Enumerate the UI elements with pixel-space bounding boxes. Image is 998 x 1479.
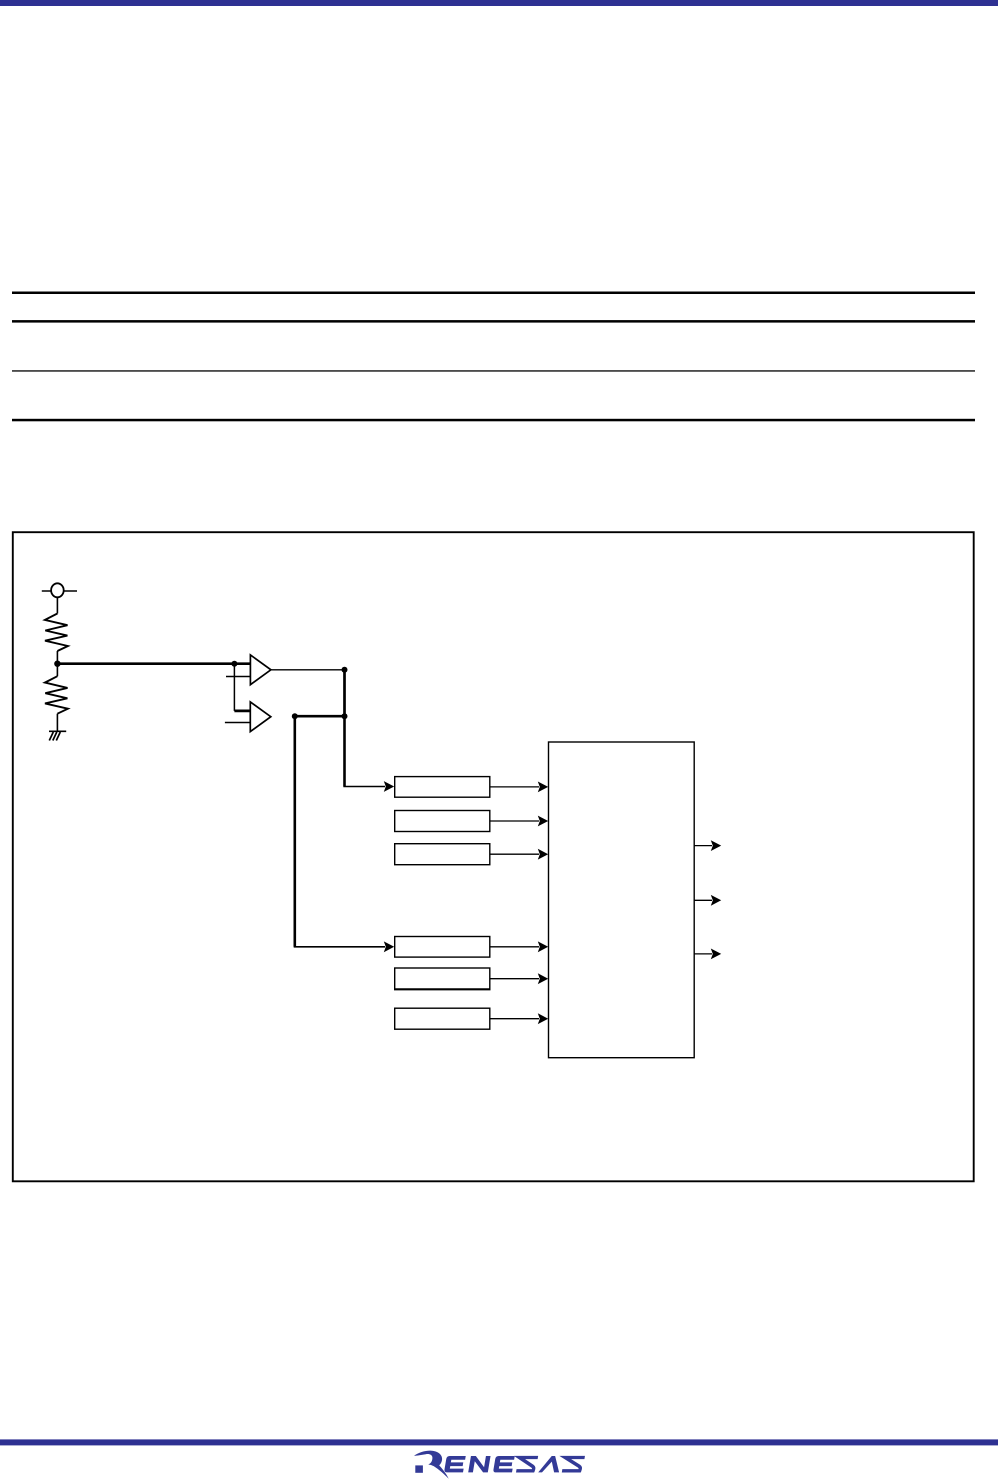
figure frame [13,532,974,1181]
output wire 1 [694,840,721,851]
wire block 3 to logic block [490,849,548,860]
block 2 [395,811,490,832]
wire block 4 to logic block [490,941,548,952]
block 5 bottom heavy edge [394,988,491,990]
table rule 2 [12,320,975,323]
logo letter E2 [493,1456,515,1472]
node B [231,661,237,667]
block 5 [395,968,490,989]
wire block 2 to logic block [490,816,548,827]
resistor R1 [45,614,68,652]
logo letter R swoosh [414,1451,449,1479]
logo square dot [415,1465,423,1472]
block 4 [395,937,490,958]
ground [49,731,66,740]
wire R1 to node A [56,651,58,664]
wire node C to node D [343,670,346,716]
wire node E down to delay block 4 [294,716,395,952]
comparator U2 [250,702,270,732]
logo letter A [538,1456,562,1472]
node C [342,667,348,673]
page footer bar [0,1439,998,1445]
wire into U2 input [234,710,250,713]
logo letter E [444,1456,466,1472]
wire U2 lower input stub [225,722,250,724]
wire block 6 to logic block [490,1013,548,1024]
wire U1 output [271,669,345,671]
wire node B down to U2 [233,664,235,711]
output wire 3 [694,949,721,960]
table rule 1 [12,292,975,295]
comparator U1 [250,655,271,685]
node A [54,661,60,667]
logo letter N [468,1456,490,1472]
logo letter S1 [516,1458,538,1471]
block 1 [395,777,490,798]
page header bar [0,0,998,6]
wire node A to R2 [56,664,58,677]
resistor R2 [45,676,68,714]
table rule 4 [12,419,975,422]
output wire 2 [694,895,721,906]
logo letter S2 [562,1458,585,1471]
wire terminal to R1 [56,597,58,613]
wire block 1 to logic block [490,782,548,793]
Renesas logo [414,1451,585,1479]
block 6 [395,1008,490,1029]
wire R2 to ground [56,714,58,732]
logic block U3 [549,742,695,1058]
wire node D to node E [295,715,345,718]
wire U1 lower input stub [226,676,250,678]
block 3 [395,844,490,865]
wire node D down to delay block 1 [343,716,394,792]
node E [292,713,298,719]
input terminal [42,583,77,597]
wire block 5 to logic block [490,973,548,984]
node D [342,713,348,719]
wire node A to comparator U1 input [57,662,250,665]
table rule 3 [12,370,975,371]
